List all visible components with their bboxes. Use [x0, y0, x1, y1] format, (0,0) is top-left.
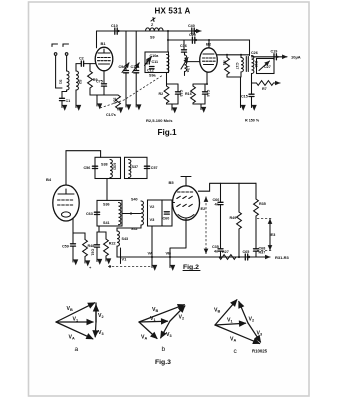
- output line with C19: [252, 56, 288, 58]
- vector VB: [215, 300, 237, 325]
- C27 tuning box: [257, 59, 275, 74]
- svg-text:V1: V1: [122, 257, 128, 262]
- stray pencil mark: [151, 18, 155, 22]
- svg-text:C1: C1: [66, 99, 71, 103]
- VA line from detector: [151, 226, 153, 263]
- capacitor C63: [86, 212, 100, 216]
- svg-text:S37: S37: [132, 165, 139, 169]
- svg-text:C59: C59: [62, 245, 69, 249]
- svg-text:Fig.2: Fig.2: [183, 264, 199, 271]
- wire C2 to B1 grid: [84, 63, 96, 65]
- IF transformer core: [246, 57, 248, 72]
- resistor R22: [97, 232, 116, 268]
- svg-text:C13: C13: [179, 90, 183, 97]
- B2 plate wire: [217, 54, 250, 56]
- dashed zero line: [108, 266, 152, 268]
- svg-text:C17: C17: [235, 63, 239, 70]
- capacitor C60: [163, 212, 170, 221]
- capacitor C40: [188, 24, 196, 34]
- vector diagram a: [56, 303, 104, 353]
- svg-text:Fig.1: Fig.1: [158, 128, 178, 137]
- ground: [171, 108, 173, 110]
- svg-text:R16: R16: [185, 92, 192, 96]
- box1 to box3 wire: [106, 179, 108, 201]
- coil S1: [59, 71, 70, 90]
- gang capacitor C14a: [131, 31, 141, 107]
- gang capacitor C9a: [119, 31, 130, 107]
- closing edges: [95, 303, 97, 322]
- svg-text:4n: 4n: [215, 203, 220, 207]
- resistor R16 / capacitor C14 pair: [185, 84, 207, 103]
- capacitor C1: [60, 98, 71, 105]
- capacitor C65: [243, 250, 251, 260]
- vector V3: [161, 321, 170, 338]
- resistor R48: [73, 233, 94, 270]
- wire S2 bottom: [75, 90, 77, 106]
- ground: [251, 105, 253, 108]
- svg-text:S1: S1: [59, 80, 63, 85]
- wire: [193, 103, 205, 107]
- capacitor C10: [111, 24, 120, 34]
- coil S11 with core arrow: [181, 52, 190, 76]
- svg-text:R9: R9: [93, 78, 98, 82]
- S43 bottom to rail: [117, 246, 130, 257]
- svg-text:R7: R7: [262, 87, 267, 91]
- triode B1: [95, 41, 113, 71]
- coil S40/S41: [131, 198, 143, 232]
- svg-text:B1: B1: [101, 41, 107, 46]
- svg-text:V2: V2: [150, 204, 156, 209]
- capacitor C61: [91, 226, 100, 262]
- resistor R9: [88, 64, 98, 95]
- svg-text:Fig.3: Fig.3: [155, 359, 171, 366]
- svg-text:B4: B4: [46, 177, 52, 182]
- svg-text:C10: C10: [111, 24, 118, 28]
- svg-text:E2: E2: [201, 206, 207, 211]
- svg-text:R 150 %: R 150 %: [245, 119, 260, 123]
- S14 bottom drop with C15: [251, 74, 253, 106]
- trimmer C11: [145, 57, 159, 66]
- wire S2 top to C2: [76, 64, 81, 71]
- svg-text:C66: C66: [213, 198, 220, 202]
- coil S13: [235, 55, 243, 72]
- svg-text:C35: C35: [212, 245, 219, 249]
- vector diagram b: [139, 305, 185, 353]
- svg-text:4n: 4n: [214, 250, 219, 254]
- svg-text:R31-R3: R31-R3: [275, 255, 290, 260]
- svg-text:V3: V3: [150, 217, 156, 222]
- cathode node rail: [90, 94, 118, 96]
- vector V2: [239, 302, 248, 324]
- svg-text:C14: C14: [206, 90, 210, 98]
- capacitor C57: [144, 166, 157, 170]
- svg-text:B5: B5: [169, 180, 175, 185]
- coil S10 on box right: [149, 55, 169, 78]
- B4 cathode drops: C59: [62, 218, 76, 262]
- svg-text:VA: VA: [148, 251, 153, 256]
- svg-text:S9: S9: [150, 36, 155, 40]
- svg-text:C9a: C9a: [119, 65, 127, 69]
- coil in box 3: [119, 203, 121, 225]
- svg-text:S36: S36: [103, 202, 110, 206]
- antenna terminal 1: [52, 44, 58, 88]
- vector V2: [170, 306, 185, 321]
- E2 dimension: [201, 197, 207, 254]
- vector VB: [56, 303, 95, 322]
- B5 plate to top rail: [198, 183, 256, 191]
- E3 dimension: [257, 219, 276, 251]
- pentode B2: [200, 42, 218, 73]
- trimmer C12: [147, 67, 154, 73]
- resistor R4: [222, 55, 229, 75]
- resistor R27: [219, 250, 236, 259]
- ground: [61, 106, 63, 108]
- capacitor C56: [84, 166, 98, 170]
- svg-text:C60: C60: [163, 217, 170, 221]
- ground: [96, 95, 98, 106]
- tank box 1: [95, 157, 121, 178]
- svg-text:R35: R35: [259, 202, 266, 206]
- B1 cathode pin: [103, 71, 105, 83]
- B1 anode pin to top bus: [96, 31, 98, 48]
- capacitor C15: [241, 94, 254, 98]
- coil S43: [117, 231, 128, 246]
- B2 top cap pin: [208, 40, 210, 48]
- svg-text:b: b: [162, 346, 166, 353]
- svg-text:C40: C40: [188, 24, 195, 28]
- svg-text:63Ω: 63Ω: [113, 163, 117, 170]
- vector V1: [215, 323, 246, 325]
- svg-text:R27: R27: [222, 250, 229, 254]
- svg-text:C57: C57: [151, 166, 158, 170]
- svg-text:S2: S2: [78, 80, 82, 85]
- svg-text:L3a: L3a: [186, 66, 190, 73]
- resistor R7 output: [252, 81, 281, 91]
- svg-text:S9a: S9a: [149, 74, 157, 78]
- wire term1 to C1 node: [56, 88, 67, 98]
- svg-text:S41: S41: [103, 221, 110, 225]
- svg-text:a: a: [75, 346, 79, 353]
- svg-text:VB: VB: [166, 251, 172, 256]
- coil S38: [101, 160, 117, 178]
- vector VA: [139, 322, 157, 339]
- svg-text:C19: C19: [271, 50, 278, 54]
- ground: [200, 107, 202, 110]
- box 4 detector: [148, 200, 173, 226]
- coil S9 on bus: [146, 23, 164, 40]
- svg-text:R2,5-100 Mc/s: R2,5-100 Mc/s: [146, 118, 173, 123]
- svg-text:R2: R2: [159, 92, 164, 96]
- antenna terminal 2: [63, 44, 69, 71]
- svg-text:S40: S40: [131, 198, 138, 202]
- svg-text:S38: S38: [101, 163, 108, 167]
- svg-text:R48: R48: [88, 244, 95, 248]
- svg-text:C16: C16: [180, 44, 187, 48]
- grid wire to B2: [188, 61, 201, 63]
- svg-text:C20: C20: [189, 33, 196, 37]
- coil S2: [76, 71, 82, 90]
- top bus line 1: [97, 30, 202, 32]
- svg-text:C15: C15: [241, 95, 248, 99]
- capacitor C2: [79, 57, 84, 67]
- capacitor C16: [180, 40, 187, 52]
- svg-text:R22: R22: [109, 242, 116, 246]
- vector VB: [139, 305, 184, 322]
- svg-text:C61: C61: [91, 249, 95, 256]
- svg-text:HX 531 A: HX 531 A: [155, 7, 191, 16]
- capacitor C20: [189, 33, 197, 43]
- V1 measure line: [120, 248, 122, 264]
- link box3 to coil S40: [122, 213, 141, 215]
- vector V1: [139, 320, 168, 323]
- svg-text:E3: E3: [271, 232, 277, 237]
- tube B5: [169, 177, 200, 221]
- capacitor C35: [212, 245, 223, 258]
- capacitor C68/R37: [254, 247, 266, 258]
- osc tank box 3: [97, 200, 122, 226]
- main bottom rail: [130, 256, 270, 258]
- svg-text:R37: R37: [259, 251, 266, 255]
- capacitor C66: [213, 183, 224, 248]
- svg-text:C56: C56: [84, 166, 91, 170]
- ground: [75, 106, 77, 108]
- vector V2: [95, 305, 97, 322]
- svg-text:C14a: C14a: [131, 65, 141, 69]
- svg-text:S43: S43: [122, 237, 129, 241]
- svg-text:C27: C27: [264, 65, 271, 69]
- tank box 2: [125, 157, 148, 178]
- svg-text:C26: C26: [251, 51, 258, 55]
- tube B4: [46, 177, 79, 221]
- svg-text:R49: R49: [230, 216, 237, 220]
- B2 cathode pin: [206, 72, 208, 84]
- coil S14: [251, 51, 258, 74]
- bus line 2: [168, 31, 250, 56]
- vector V3: [94, 322, 97, 337]
- resistor R49: [230, 183, 242, 258]
- S42 to S43 link: [117, 225, 141, 231]
- resistor R35: [254, 183, 266, 248]
- svg-text:R10025: R10025: [252, 349, 268, 354]
- B4 anode to top: [66, 151, 101, 185]
- resistor 35n: [113, 95, 121, 110]
- VB arrow: [169, 263, 171, 268]
- ground: [240, 105, 242, 108]
- coil S39: [129, 160, 139, 178]
- svg-text:C1/7s: C1/7s: [106, 113, 116, 117]
- svg-text:C11: C11: [152, 60, 159, 64]
- vector VA: [215, 325, 260, 344]
- capacitor C75: [96, 80, 107, 96]
- R4+S13 common drop: [227, 72, 241, 105]
- vector V1: [56, 321, 93, 323]
- dashed gang coupling line: [100, 75, 163, 108]
- wire: [167, 103, 179, 108]
- box4 to B5 grid: [172, 202, 175, 204]
- svg-text:C65: C65: [243, 250, 250, 254]
- svg-text:C2: C2: [79, 57, 84, 61]
- vector diagram c: [214, 300, 262, 355]
- svg-text:C12: C12: [147, 69, 154, 73]
- vector VA: [56, 322, 93, 339]
- svg-text:C63: C63: [86, 212, 93, 216]
- resistor R2 / capacitor C13 pair: [159, 73, 179, 104]
- oscillator trimmer box: [145, 52, 169, 73]
- B5 cathode: [170, 220, 186, 262]
- vector V3: [248, 323, 261, 342]
- svg-text:10µA: 10µA: [291, 54, 301, 59]
